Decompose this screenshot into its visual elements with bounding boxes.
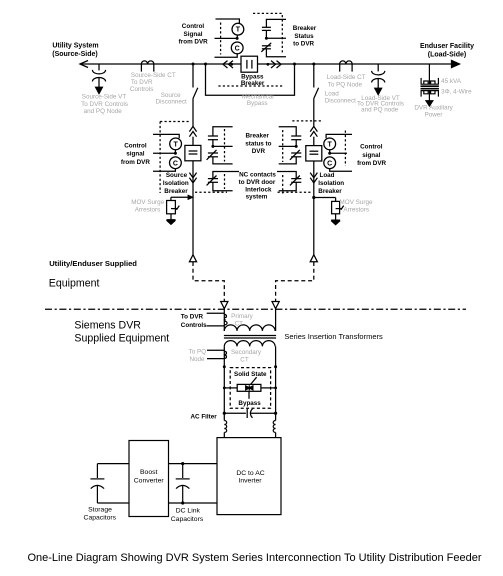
wire inductor right to inverter bbox=[275, 433, 277, 438]
node DC link bottom bbox=[181, 501, 184, 504]
bypass breaker status contact NC bbox=[261, 43, 286, 57]
svg-text:Disconnect: Disconnect bbox=[156, 99, 187, 106]
DC to AC inverter box bbox=[217, 438, 281, 515]
svg-text:Isolation: Isolation bbox=[163, 180, 189, 187]
ground right MOV bbox=[331, 214, 340, 225]
svg-text:Breaker: Breaker bbox=[164, 188, 188, 195]
load breaker trip coil T bbox=[324, 134, 352, 149]
source breaker status contact NO bbox=[208, 127, 233, 147]
load breaker close coil C bbox=[324, 157, 352, 171]
svg-text:to DVR door: to DVR door bbox=[239, 179, 276, 186]
svg-text:To PQ Node: To PQ Node bbox=[328, 81, 363, 88]
load-side VT bbox=[372, 64, 385, 95]
svg-text:To DVR: To DVR bbox=[131, 79, 153, 86]
svg-text:Enduser Facility: Enduser Facility bbox=[420, 43, 474, 50]
node SCR right bbox=[274, 387, 277, 390]
svg-text:Control: Control bbox=[182, 23, 205, 30]
node T-C junction bypass bbox=[215, 35, 239, 40]
dashed drop source to primary bbox=[193, 262, 224, 301]
svg-text:Capacitors: Capacitors bbox=[171, 516, 204, 523]
svg-text:CT: CT bbox=[235, 320, 244, 327]
wire below source isolation breaker bbox=[192, 161, 194, 255]
node AC filter left bbox=[223, 412, 226, 415]
svg-text:AC Filter: AC Filter bbox=[190, 413, 217, 420]
svg-text:and PQ node: and PQ node bbox=[361, 106, 399, 113]
boost converter box bbox=[129, 441, 169, 517]
wire into source isolation breaker bbox=[192, 137, 194, 146]
svg-text:Control: Control bbox=[124, 143, 147, 150]
svg-text:and PQ Node: and PQ Node bbox=[84, 108, 123, 115]
series transformer primary winding bbox=[224, 309, 275, 331]
svg-text:T: T bbox=[236, 27, 241, 34]
svg-text:Breaker: Breaker bbox=[318, 188, 342, 195]
svg-text:Inverter: Inverter bbox=[238, 478, 262, 485]
svg-text:Secondary: Secondary bbox=[231, 349, 262, 356]
arrow head load drop bbox=[310, 255, 317, 262]
wire SCR to left rail bbox=[224, 387, 237, 389]
svg-text:To PQ: To PQ bbox=[189, 348, 207, 355]
svg-text:Source-Side CT: Source-Side CT bbox=[131, 72, 176, 79]
svg-text:C: C bbox=[235, 45, 240, 52]
wire below load isolation breaker bbox=[313, 161, 315, 255]
svg-text:MOV Surge: MOV Surge bbox=[340, 199, 373, 206]
node AC filter right bbox=[274, 412, 277, 415]
node solid state bypass left bbox=[223, 365, 226, 368]
bypass breaker linkage dashed bbox=[218, 13, 283, 86]
solid state bypass dashed enclosure bbox=[230, 368, 270, 409]
source-side CT bbox=[141, 61, 154, 72]
svg-text:Utility System: Utility System bbox=[52, 43, 98, 50]
bypass breaker close coil C bbox=[215, 42, 244, 57]
svg-text:DVR Auxiliary: DVR Auxiliary bbox=[414, 105, 453, 112]
svg-text:Node: Node bbox=[189, 356, 205, 363]
load door interlock NC contact bbox=[277, 172, 301, 191]
svg-text:Isolation: Isolation bbox=[318, 180, 344, 187]
svg-text:Arrestors: Arrestors bbox=[343, 207, 369, 214]
svg-text:C: C bbox=[327, 160, 332, 167]
svg-text:T: T bbox=[173, 141, 178, 148]
svg-text:45 kVA: 45 kVA bbox=[441, 78, 462, 85]
arrow to enduser load side bbox=[452, 61, 460, 68]
svg-text:Bypass: Bypass bbox=[238, 400, 261, 407]
node load T-C junction bbox=[328, 150, 347, 155]
svg-text:Disconnect: Disconnect bbox=[325, 97, 356, 104]
svg-text:To DVR: To DVR bbox=[181, 313, 204, 320]
arrow head primary right bbox=[272, 302, 279, 309]
node solid state bypass right bbox=[274, 365, 277, 368]
MOV surge arrestor right bbox=[314, 198, 344, 214]
svg-text:to DVR: to DVR bbox=[293, 41, 314, 48]
DC link capacitor bbox=[176, 464, 190, 503]
node load disconnect tap bbox=[312, 63, 315, 66]
arrow to utility source side bbox=[80, 61, 88, 68]
load breaker drawout chevrons down bbox=[310, 173, 317, 183]
svg-text:Source: Source bbox=[166, 172, 188, 179]
svg-text:from DVR: from DVR bbox=[179, 39, 208, 46]
node DC link top bbox=[181, 462, 184, 465]
source breaker status contact NC bbox=[207, 150, 233, 164]
series transformer secondary winding bbox=[224, 341, 275, 367]
DVR auxiliary transformer 45kVA bbox=[421, 64, 439, 106]
svg-text:MOV Surge: MOV Surge bbox=[131, 199, 164, 206]
node source disconnect tap bbox=[192, 63, 195, 66]
svg-text:Series Insertion Transformers: Series Insertion Transformers bbox=[284, 332, 383, 341]
node mechanical bypass right bbox=[293, 63, 296, 66]
svg-text:from DVR: from DVR bbox=[357, 160, 386, 167]
node load status junction bbox=[279, 145, 298, 148]
svg-text:Storage: Storage bbox=[88, 506, 112, 513]
load breaker status contact NO bbox=[279, 127, 302, 147]
wire SCR to right rail bbox=[261, 387, 276, 389]
svg-text:signal: signal bbox=[126, 151, 144, 158]
svg-text:NC contacts: NC contacts bbox=[239, 171, 276, 178]
svg-text:CT: CT bbox=[240, 357, 249, 364]
svg-text:3Φ, 4-Wire: 3Φ, 4-Wire bbox=[441, 89, 472, 96]
source isolation breaker CB2 bbox=[185, 145, 201, 160]
AC filter capacitor link bbox=[224, 409, 275, 418]
wire boost to inverter top bbox=[169, 463, 218, 465]
svg-text:One-Line Diagram Showing DVR S: One-Line Diagram Showing DVR System Seri… bbox=[27, 552, 481, 564]
wire into load isolation breaker bbox=[313, 137, 315, 146]
wire mechanical bypass loop bbox=[206, 64, 295, 95]
source breaker cubicle dashed bbox=[160, 122, 227, 194]
arrow head source drop bbox=[189, 255, 196, 262]
load disconnect switch bbox=[314, 64, 319, 126]
svg-text:Controls: Controls bbox=[181, 322, 207, 329]
wire to PQ node secondary CT bbox=[207, 350, 226, 358]
svg-text:system: system bbox=[246, 193, 268, 200]
wire main feeder bus bbox=[80, 63, 455, 65]
solid state bypass SCR block bbox=[237, 377, 261, 399]
svg-text:T: T bbox=[328, 141, 333, 148]
svg-text:DVR: DVR bbox=[252, 148, 266, 155]
node source status junction bbox=[211, 145, 232, 148]
node bypass status junction bbox=[265, 37, 286, 40]
svg-text:Load: Load bbox=[319, 172, 334, 179]
storage capacitor bbox=[90, 464, 104, 503]
node SCR left bbox=[223, 387, 226, 390]
svg-text:To DVR Controls: To DVR Controls bbox=[81, 101, 128, 108]
series transformer core bbox=[224, 336, 276, 339]
dashed drop load to primary bbox=[276, 262, 314, 301]
wire to DVR controls primary CT bbox=[207, 313, 227, 326]
svg-text:Signal: Signal bbox=[184, 31, 203, 38]
node source T-C junction bbox=[153, 150, 177, 155]
svg-text:Control: Control bbox=[360, 144, 383, 151]
svg-text:Arrestors: Arrestors bbox=[135, 207, 161, 214]
svg-text:Primary: Primary bbox=[231, 313, 254, 320]
node MOV tap right bbox=[312, 196, 315, 199]
bypass breaker CB1 bbox=[241, 56, 258, 72]
svg-text:Solid State: Solid State bbox=[234, 371, 267, 378]
svg-text:DC to AC: DC to AC bbox=[236, 470, 264, 477]
arrow head primary left bbox=[221, 302, 228, 309]
svg-text:(Source-Side): (Source-Side) bbox=[52, 51, 98, 58]
load isolation breaker drawout chevrons up bbox=[310, 126, 317, 136]
source breaker trip coil T bbox=[153, 134, 182, 149]
source-side VT bbox=[92, 64, 105, 94]
svg-text:Breaker: Breaker bbox=[241, 80, 265, 87]
svg-text:Load-Side CT: Load-Side CT bbox=[327, 74, 366, 81]
bypass breaker status contact NO bbox=[262, 19, 286, 38]
wire inductor left to inverter bbox=[223, 433, 225, 438]
svg-text:Equipment: Equipment bbox=[49, 278, 100, 290]
svg-text:from DVR: from DVR bbox=[121, 159, 150, 166]
source door interlock NC contact bbox=[207, 172, 239, 191]
svg-text:signal: signal bbox=[362, 152, 380, 159]
svg-text:Status: Status bbox=[294, 33, 314, 40]
svg-text:Breaker: Breaker bbox=[245, 133, 269, 140]
svg-text:Siemens DVR: Siemens DVR bbox=[74, 319, 141, 331]
filter inductor left bbox=[224, 421, 226, 433]
bypass breaker drawout chevrons right bbox=[267, 61, 282, 68]
source breaker drawout chevrons down bbox=[189, 173, 196, 183]
svg-text:Breaker: Breaker bbox=[293, 25, 317, 32]
svg-text:Bypass: Bypass bbox=[247, 100, 268, 107]
svg-text:DC Link: DC Link bbox=[176, 508, 201, 515]
wire storage caps bottom bbox=[97, 502, 129, 504]
filter inductor right bbox=[273, 421, 275, 433]
svg-text:C: C bbox=[173, 160, 178, 167]
svg-text:status to: status to bbox=[245, 140, 271, 147]
svg-text:Power: Power bbox=[425, 112, 443, 119]
svg-text:Boost: Boost bbox=[140, 469, 157, 476]
svg-text:Controls: Controls bbox=[130, 86, 153, 93]
wire left rail to inverter bbox=[223, 367, 225, 421]
svg-text:Interlock: Interlock bbox=[245, 186, 272, 193]
load breaker cubicle dashed bbox=[278, 121, 346, 194]
load-side CT bbox=[340, 61, 353, 72]
svg-text:Source-Side VT: Source-Side VT bbox=[82, 94, 127, 101]
wire storage caps top bbox=[97, 463, 129, 465]
source disconnect switch bbox=[193, 64, 198, 126]
svg-text:Capacitors: Capacitors bbox=[84, 515, 117, 522]
wire right rail to inverter bbox=[275, 367, 277, 421]
boundary dash-dot utility vs siemens bbox=[45, 308, 466, 310]
MOV surge arrestor left bbox=[167, 195, 193, 213]
bypass breaker drawout chevrons left bbox=[223, 61, 233, 68]
svg-text:Utility/Enduser Supplied: Utility/Enduser Supplied bbox=[49, 259, 137, 268]
bypass breaker trip coil T bbox=[216, 19, 244, 35]
wire boost to inverter bottom bbox=[169, 502, 218, 504]
source isolation breaker drawout chevrons up bbox=[189, 126, 196, 136]
ground left MOV bbox=[167, 214, 176, 225]
load isolation breaker CB3 bbox=[306, 146, 322, 161]
node mechanical bypass left bbox=[204, 63, 207, 66]
svg-text:Converter: Converter bbox=[134, 478, 165, 485]
svg-text:Supplied Equipment: Supplied Equipment bbox=[74, 332, 169, 344]
source breaker close coil C bbox=[153, 157, 181, 171]
load breaker status contact NC bbox=[279, 150, 302, 164]
svg-text:(Load-Side): (Load-Side) bbox=[428, 51, 467, 58]
